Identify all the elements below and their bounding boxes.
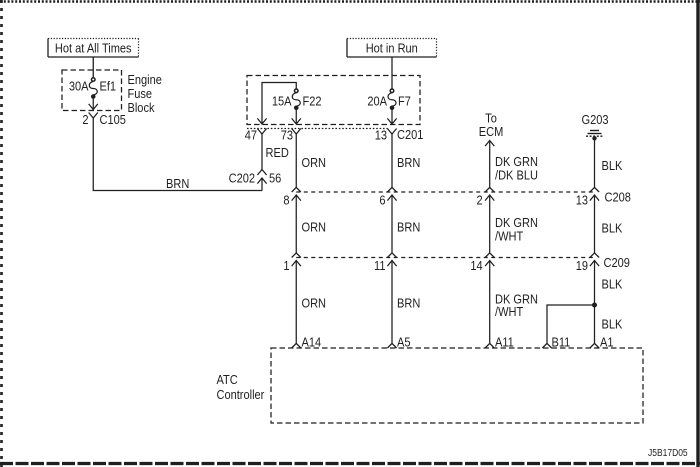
svg-text:ATC: ATC <box>217 372 239 387</box>
svg-text:Engine: Engine <box>128 72 163 87</box>
wire DK GRN/WHT from C209 pin 14 to ATC pin A11 <box>490 261 538 343</box>
wire from Hot in Run to fuse F7 <box>391 57 393 89</box>
connector C201 pin 47 <box>245 128 267 143</box>
svg-text:19: 19 <box>576 258 589 273</box>
wire BRN from C105 to C202 <box>93 118 262 191</box>
fuse F7 20A <box>367 89 411 124</box>
svg-text:/WHT: /WHT <box>495 304 524 319</box>
svg-text:13: 13 <box>576 193 589 208</box>
svg-text:BRN: BRN <box>397 155 420 170</box>
ATC pin A1 <box>590 335 614 350</box>
wire ORN from C209 pin 1 to ATC pin A14 <box>296 261 326 343</box>
svg-text:J5B17D05: J5B17D05 <box>648 447 688 458</box>
fuse Ef1 30A <box>69 78 116 110</box>
wire RED from pin 47 to C202 <box>262 134 289 170</box>
wire BLK from C209 pin 19 to junction <box>595 261 623 305</box>
svg-text:RED: RED <box>266 145 290 160</box>
connector C209 line <box>296 255 630 270</box>
svg-text:56: 56 <box>269 171 282 186</box>
connector C208 pin 6 <box>379 187 396 207</box>
svg-text:C201: C201 <box>397 127 424 142</box>
svg-text:F22: F22 <box>303 94 322 109</box>
label Engine Fuse Block <box>128 72 163 115</box>
svg-text:13: 13 <box>375 128 388 143</box>
svg-text:/WHT: /WHT <box>495 229 524 244</box>
connector C208 pin 8 <box>283 187 300 207</box>
connector C209 pin 1 <box>283 253 300 273</box>
svg-text:47: 47 <box>245 128 258 143</box>
ATC pin A14 <box>292 335 322 350</box>
svg-text:G203: G203 <box>581 112 608 127</box>
power label "Hot at All Times" <box>48 39 139 58</box>
svg-text:Controller: Controller <box>217 387 265 402</box>
svg-text:/DK BLU: /DK BLU <box>495 168 538 183</box>
wire ORN from pin 73 to C208 pin 8 <box>296 134 326 187</box>
connector C208 pin 13 <box>576 187 599 207</box>
svg-text:Hot in Run: Hot in Run <box>366 41 418 56</box>
svg-text:Block: Block <box>128 100 156 115</box>
svg-text:14: 14 <box>470 258 483 273</box>
Engine Fuse Block box <box>62 70 122 111</box>
junction node <box>592 303 597 308</box>
svg-text:1: 1 <box>283 258 289 273</box>
svg-text:B11: B11 <box>552 335 571 350</box>
svg-text:A14: A14 <box>302 335 322 350</box>
connector C201 pin 73 <box>281 128 301 143</box>
wire BRN from C208 pin 6 to C209 pin 11 <box>392 196 420 253</box>
label BRN <box>166 176 189 191</box>
svg-text:20A: 20A <box>367 94 388 109</box>
wire ORN from C208 pin 8 to C209 pin 1 <box>296 196 326 253</box>
wire BRN from pin 13 to C208 pin 6 <box>392 134 420 187</box>
wire from Hot at All Times into fuse block <box>92 57 94 79</box>
connector C208 pin 2 <box>477 187 495 207</box>
wire loop to pin 47 <box>257 83 296 125</box>
svg-text:A1: A1 <box>600 335 614 350</box>
wire BLK branch from junction to ATC pin B11 <box>547 305 595 343</box>
svg-text:BRN: BRN <box>397 296 420 311</box>
connector C105 pin 2 <box>82 112 126 127</box>
power label "Hot in Run" <box>347 39 437 58</box>
svg-text:A11: A11 <box>495 335 514 350</box>
wire DK GRN/DK BLU from To ECM to C208 pin 2 <box>490 141 538 188</box>
fuse block box <box>247 76 420 125</box>
connector C209 pin 19 <box>576 253 599 273</box>
svg-text:8: 8 <box>283 193 289 208</box>
svg-text:30A: 30A <box>69 79 90 94</box>
connector C209 pin 14 <box>470 253 494 273</box>
svg-text:C105: C105 <box>100 112 127 127</box>
ground G203 <box>581 112 608 140</box>
svg-text:Hot at All Times: Hot at All Times <box>55 41 132 56</box>
fuse F22 15A <box>272 89 322 124</box>
svg-text:2: 2 <box>82 112 88 127</box>
ATC pin A5 <box>387 335 410 350</box>
svg-text:C208: C208 <box>605 190 632 205</box>
ATC pin B11 <box>542 335 570 350</box>
svg-text:ORN: ORN <box>302 155 327 170</box>
svg-text:BLK: BLK <box>602 277 623 292</box>
connector C208 line <box>296 190 631 205</box>
svg-text:ECM: ECM <box>479 124 504 139</box>
svg-text:ORN: ORN <box>302 296 327 311</box>
wire BLK from C208 pin 13 to C209 pin 19 <box>595 196 623 253</box>
svg-text:Ef1: Ef1 <box>100 79 117 94</box>
svg-text:BRN: BRN <box>397 220 420 235</box>
wire BLK from G203 to C208 pin 13 <box>595 138 623 187</box>
wire DK GRN/WHT from C208 pin 2 to C209 pin 14 <box>490 196 538 253</box>
svg-text:BLK: BLK <box>602 317 623 332</box>
svg-text:A5: A5 <box>397 335 411 350</box>
wire BRN from C209 pin 11 to ATC pin A5 <box>392 261 420 343</box>
svg-text:C202: C202 <box>229 171 256 186</box>
svg-text:11: 11 <box>374 258 386 273</box>
svg-text:15A: 15A <box>272 94 293 109</box>
ATC Controller box <box>271 348 643 423</box>
svg-text:Fuse: Fuse <box>128 86 153 101</box>
connector C202 pin 56 <box>229 170 282 186</box>
ATC pin A11 <box>485 335 514 350</box>
wire BLK from junction to ATC pin A1 <box>595 305 623 343</box>
connector C201 pin 13 <box>375 128 397 143</box>
svg-text:73: 73 <box>281 128 294 143</box>
svg-text:BRN: BRN <box>166 176 189 191</box>
svg-text:C209: C209 <box>604 255 631 270</box>
svg-text:BLK: BLK <box>602 158 623 173</box>
svg-text:6: 6 <box>379 193 385 208</box>
label ATC Controller <box>217 372 265 402</box>
svg-text:F7: F7 <box>398 94 411 109</box>
svg-text:2: 2 <box>477 193 483 208</box>
svg-text:BLK: BLK <box>602 221 623 236</box>
node To ECM <box>479 111 504 146</box>
connector C201 line <box>247 127 424 142</box>
diagram id J5B17D05 <box>648 447 688 458</box>
svg-text:ORN: ORN <box>302 220 327 235</box>
connector C209 pin 11 <box>374 253 397 273</box>
